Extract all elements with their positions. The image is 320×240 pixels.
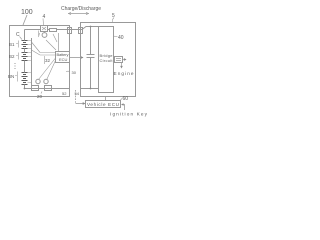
wire xyxy=(48,29,50,31)
service plug box xyxy=(41,26,48,32)
svg-text:20: 20 xyxy=(37,94,43,99)
bridge circuit box 40 xyxy=(99,27,114,93)
negative wire inside power unit xyxy=(81,88,99,90)
label B1 with brace xyxy=(9,42,15,47)
svg-text:B1: B1 xyxy=(9,42,15,47)
label 60 with leader xyxy=(123,96,129,102)
label 54 xyxy=(75,91,80,96)
capacitor plates xyxy=(87,55,95,58)
battery ECU box xyxy=(56,52,70,63)
Ignition Key text xyxy=(110,112,148,117)
diagonal sense lines to battery ECU xyxy=(32,42,56,80)
motor coupling symbol xyxy=(115,57,123,63)
label B2 with brace xyxy=(9,54,15,59)
junction dot xyxy=(24,88,26,90)
svg-text:C: C xyxy=(16,32,20,38)
thermistor circle 2 xyxy=(44,79,48,83)
svg-text:60: 60 xyxy=(123,96,129,102)
label 30 with leader xyxy=(72,70,77,75)
svg-text:Engine: Engine xyxy=(114,71,134,76)
svg-text:30: 30 xyxy=(72,70,77,75)
battery system box 100 xyxy=(10,26,70,97)
label 5 (power unit) xyxy=(112,13,115,19)
positive power wire (top) xyxy=(25,29,41,31)
label 20 with leader xyxy=(37,94,43,99)
Engine text xyxy=(114,71,134,76)
svg-text:40: 40 xyxy=(118,35,124,41)
label 100 xyxy=(21,9,33,16)
label C with leader xyxy=(16,32,20,38)
svg-text:Vehicle ECU: Vehicle ECU xyxy=(87,102,119,107)
ignition key line xyxy=(123,105,125,111)
vehicle ECU box xyxy=(86,101,121,108)
svg-text:32: 32 xyxy=(45,58,51,63)
leader for 5 xyxy=(112,18,114,23)
wire fuse to battery ECU xyxy=(58,33,60,51)
charge/discharge double arrow xyxy=(68,13,89,15)
label 40 with leader xyxy=(118,35,124,41)
svg-text:100: 100 xyxy=(21,9,33,16)
fuse xyxy=(50,29,57,32)
label 32 xyxy=(45,58,51,63)
label 52 xyxy=(62,91,67,96)
interlock circle xyxy=(42,33,47,38)
power unit box xyxy=(81,23,136,97)
small mark below plug xyxy=(39,33,58,42)
leader for 4 xyxy=(42,19,45,26)
current sensor box 2 xyxy=(45,86,52,91)
sense bus vertical line xyxy=(31,38,33,85)
negative power wire (bottom) xyxy=(25,88,70,90)
block B2 cells xyxy=(22,53,28,61)
line from system to vehicle ECU xyxy=(75,90,77,104)
smoothing capacitor vertical wire xyxy=(90,27,92,89)
svg-text:BN: BN xyxy=(8,74,14,79)
wire power unit to vehicle ECU xyxy=(105,97,107,101)
sense lines into ECU xyxy=(40,53,56,56)
label 4 xyxy=(43,14,46,20)
continuation dots between B2 and BN xyxy=(15,63,16,69)
current sensor box 1 xyxy=(32,86,39,91)
svg-text:Charge/Discharge: Charge/Discharge xyxy=(61,6,101,12)
svg-text:Circuit: Circuit xyxy=(100,58,114,63)
svg-text:ECU: ECU xyxy=(59,57,68,62)
label BN with brace xyxy=(8,74,14,79)
Charge/Discharge text xyxy=(61,6,101,12)
svg-text:52: 52 xyxy=(62,91,67,96)
block BN cells xyxy=(22,73,28,85)
battery cell stack (blocks B1,B2..BN) xyxy=(22,41,28,85)
svg-text:B2: B2 xyxy=(9,54,15,59)
leader for 100 xyxy=(23,15,27,25)
wire cell interconnect xyxy=(24,30,26,89)
junction dots xyxy=(90,26,92,90)
stub below xyxy=(44,56,46,64)
diagonal sense wire xyxy=(46,40,56,50)
block B1 cells xyxy=(22,41,28,49)
arrow down to engine xyxy=(121,63,123,67)
wall connector (battery box) xyxy=(68,28,72,34)
sense taps xyxy=(28,41,32,83)
wire to bridge circuit xyxy=(57,27,99,30)
communication line from battery ECU xyxy=(70,57,84,59)
wall connector (power unit) xyxy=(79,28,83,34)
thermistor circle 1 xyxy=(36,79,40,83)
svg-text:Ignition Key: Ignition Key xyxy=(110,112,148,117)
